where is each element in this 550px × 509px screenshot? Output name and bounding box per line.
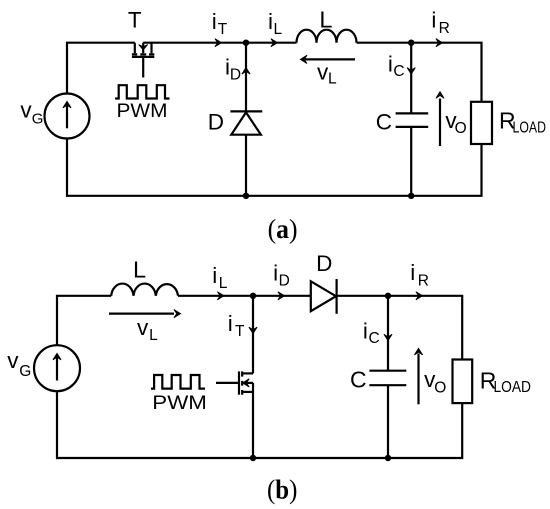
svg-text:T: T — [128, 8, 142, 33]
svg-text:C: C — [376, 109, 392, 134]
svg-text:L: L — [133, 256, 146, 282]
svg-text:PWM: PWM — [152, 393, 207, 414]
svg-text:(b): (b) — [267, 473, 297, 504]
svg-text:D: D — [208, 110, 224, 135]
svg-text:C: C — [350, 367, 367, 393]
svg-text:L: L — [319, 7, 332, 33]
svg-text:PWM: PWM — [117, 101, 168, 122]
svg-text:(a): (a) — [268, 213, 298, 244]
svg-text:D: D — [316, 251, 332, 276]
